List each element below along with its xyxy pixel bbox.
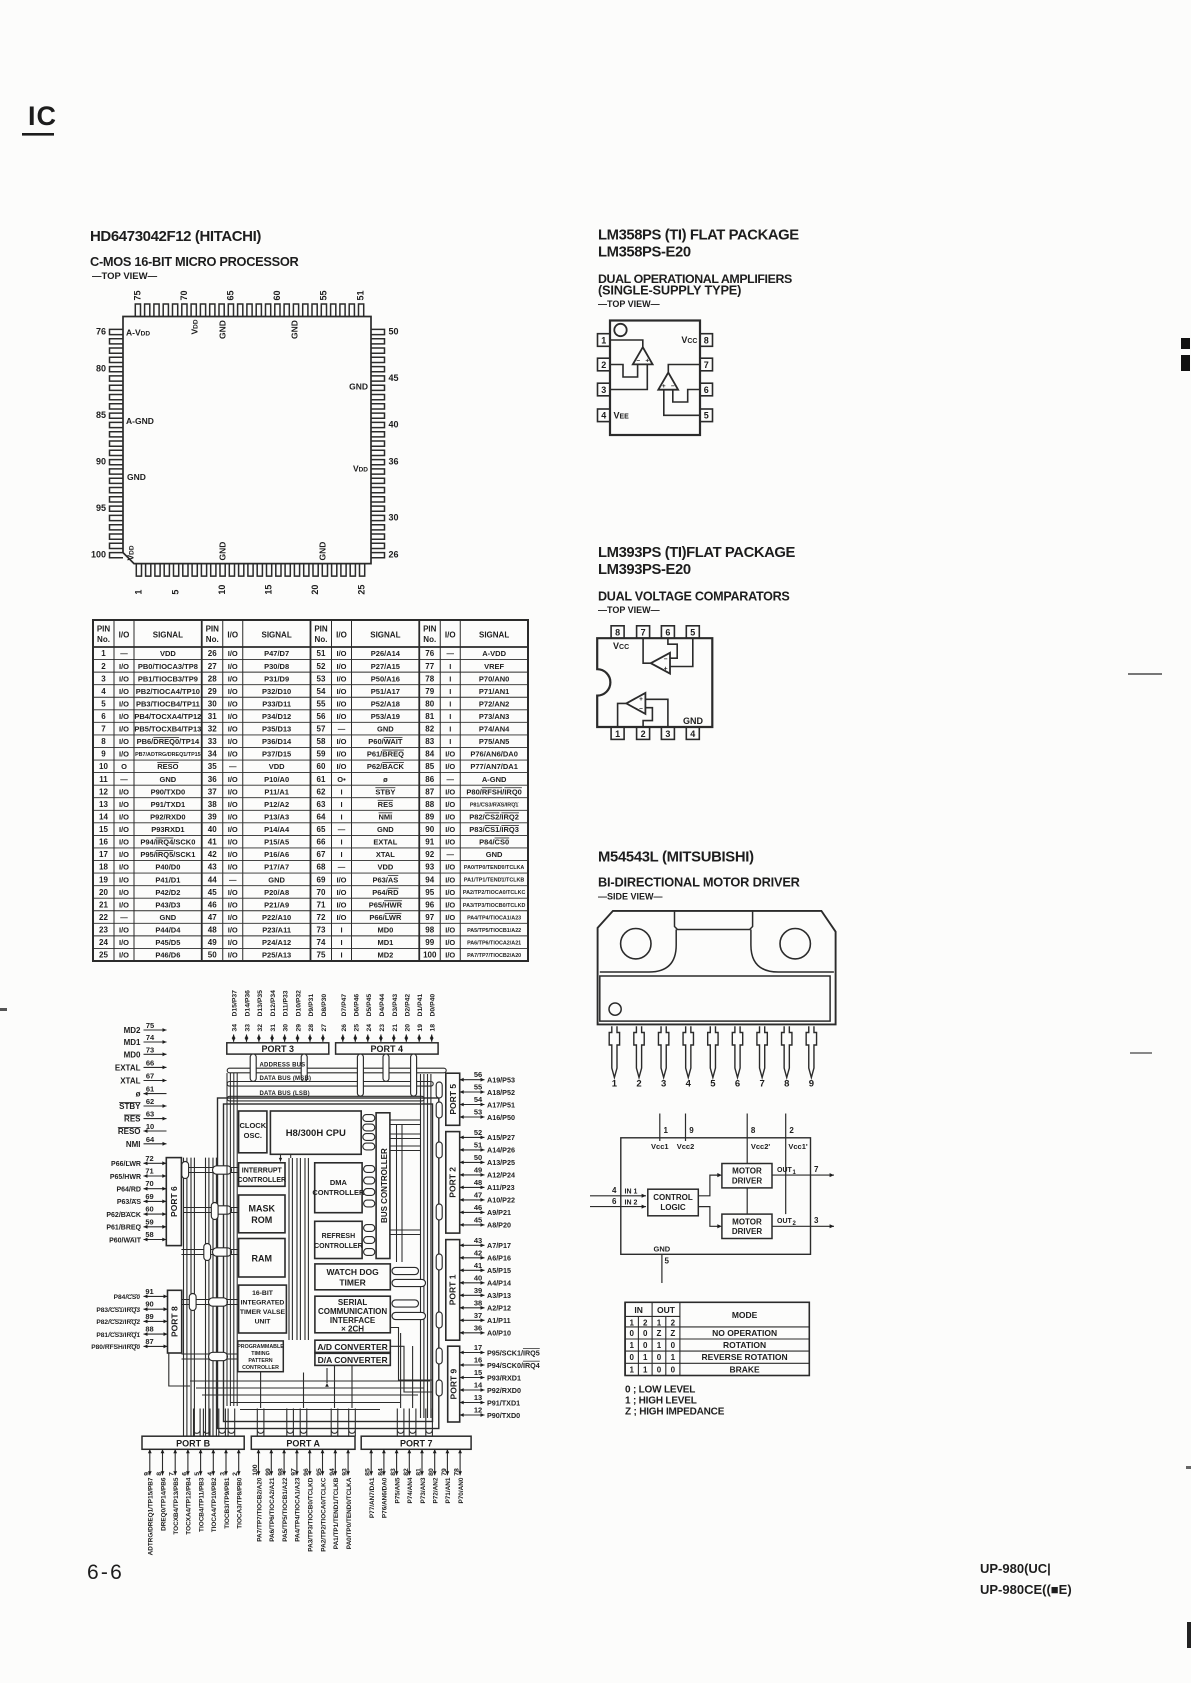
svg-text:A16/P50: A16/P50 [487, 1113, 515, 1122]
svg-text:I/O: I/O [119, 926, 129, 935]
svg-text:14: 14 [474, 1381, 483, 1390]
svg-text:43: 43 [208, 863, 217, 872]
svg-text:RESO: RESO [118, 1127, 141, 1136]
svg-text:VDD: VDD [377, 863, 393, 872]
svg-text:8: 8 [615, 628, 620, 638]
svg-text:96: 96 [425, 900, 434, 909]
svg-text:OUT: OUT [777, 1218, 793, 1225]
svg-text:0: 0 [657, 1365, 662, 1374]
svg-text:0: 0 [671, 1341, 676, 1350]
svg-text:5: 5 [171, 590, 181, 595]
svg-text:PA2/TP2/TIOCA0/TCLKC: PA2/TP2/TIOCA0/TCLKC [463, 890, 526, 896]
svg-text:18: 18 [430, 1024, 437, 1032]
svg-text:71: 71 [317, 900, 326, 909]
svg-text:6: 6 [735, 1079, 740, 1090]
svg-text:A3/P13: A3/P13 [487, 1291, 511, 1300]
svg-text:P82/CS2/IRQ2: P82/CS2/IRQ2 [96, 1319, 140, 1326]
svg-text:72: 72 [317, 913, 326, 922]
svg-text:I: I [449, 662, 451, 671]
svg-text:ø: ø [383, 775, 388, 784]
svg-text:42: 42 [474, 1248, 482, 1257]
svg-text:I: I [340, 800, 342, 809]
svg-text:TIMER VALSE: TIMER VALSE [240, 1309, 286, 1316]
svg-text:A1/P11: A1/P11 [487, 1316, 511, 1325]
svg-text:MD1: MD1 [124, 1038, 141, 1047]
svg-text:D2/P42: D2/P42 [404, 994, 411, 1017]
svg-text:21: 21 [392, 1024, 399, 1032]
svg-text:P36/D14: P36/D14 [262, 737, 292, 746]
svg-text:ADTRG/DREQ1/TP15/PB7: ADTRG/DREQ1/TP15/PB7 [148, 1477, 155, 1555]
wire U2A non-inverting input from pin3 [610, 364, 647, 389]
comparator U3A [651, 653, 670, 674]
block PORT 8 [168, 1290, 182, 1353]
svg-text:ø: ø [136, 1090, 141, 1099]
svg-text:7: 7 [814, 1165, 819, 1174]
svg-text:23: 23 [379, 1024, 386, 1032]
svg-text:Vcc2: Vcc2 [677, 1142, 695, 1151]
svg-text:I/O: I/O [228, 850, 238, 859]
svg-text:9: 9 [143, 1472, 150, 1476]
svg-text:3: 3 [665, 729, 670, 739]
svg-text:30: 30 [283, 1024, 290, 1032]
svg-text:74: 74 [317, 938, 326, 947]
svg-text:RES: RES [124, 1115, 141, 1124]
svg-text:58: 58 [145, 1230, 153, 1239]
PORT 9 external signals [460, 1352, 485, 1354]
svg-text:1: 1 [657, 1318, 662, 1327]
svg-text:27: 27 [321, 1024, 328, 1032]
svg-text:6-6: 6-6 [87, 1561, 124, 1584]
svg-text:88: 88 [145, 1325, 153, 1334]
svg-text:(SINGLE-SUPPLY TYPE): (SINGLE-SUPPLY TYPE) [598, 283, 741, 298]
svg-text:Vcc1: Vcc1 [651, 1142, 669, 1151]
svg-text:A-GND: A-GND [126, 416, 154, 426]
svg-text:3: 3 [814, 1216, 819, 1225]
svg-text:XTAL: XTAL [120, 1077, 140, 1086]
svg-text:A0/P10: A0/P10 [487, 1329, 511, 1338]
svg-text:P71/AN1: P71/AN1 [445, 1477, 452, 1503]
svg-text:27: 27 [208, 662, 217, 671]
svg-text:P70/AN0: P70/AN0 [458, 1477, 465, 1503]
op-amp U2B [658, 373, 678, 390]
svg-text:95: 95 [425, 888, 434, 897]
svg-text:70: 70 [145, 1179, 153, 1188]
svg-text:P84/CS0: P84/CS0 [479, 838, 509, 847]
svg-text:78: 78 [425, 674, 434, 683]
svg-text:VCC: VCC [681, 335, 697, 345]
svg-text:O•: O• [337, 775, 346, 784]
svg-text:I/O: I/O [119, 800, 129, 809]
svg-text:56: 56 [317, 712, 326, 721]
svg-text:P24/A12: P24/A12 [262, 938, 291, 947]
svg-text:I/O: I/O [119, 699, 129, 708]
svg-text:14: 14 [99, 812, 108, 821]
svg-text:80: 80 [425, 699, 434, 708]
svg-text:A15/P27: A15/P27 [487, 1133, 515, 1142]
U4 right wing inner outline [751, 930, 834, 973]
block DMA CONTROLLER [315, 1163, 362, 1213]
svg-text:90: 90 [145, 1300, 153, 1309]
svg-text:P77/AN7/DA1: P77/AN7/DA1 [470, 762, 518, 771]
PORT 7 external pins [370, 1449, 372, 1475]
svg-text:UP-980(UC|: UP-980(UC| [980, 1561, 1051, 1576]
svg-text:P80/RFSH/IRQ0: P80/RFSH/IRQ0 [466, 787, 521, 796]
svg-text:0: 0 [671, 1365, 676, 1374]
svg-text:8: 8 [704, 335, 709, 345]
svg-text:62: 62 [146, 1097, 154, 1106]
svg-text:39: 39 [208, 812, 217, 821]
svg-text:40: 40 [208, 825, 217, 834]
wire U3A output to pin7 [643, 638, 651, 663]
svg-text:A14/P26: A14/P26 [487, 1146, 515, 1155]
svg-text:37: 37 [474, 1311, 482, 1320]
svg-text:IN 2: IN 2 [625, 1199, 638, 1206]
svg-text:93: 93 [342, 1468, 349, 1476]
svg-text:I/O: I/O [119, 938, 129, 947]
svg-text:I/O: I/O [228, 913, 238, 922]
svg-text:6: 6 [704, 385, 709, 395]
svg-text:30: 30 [389, 512, 399, 522]
scan mark left edge [0, 1008, 7, 1011]
block INTERRUPT CONTROLLER [239, 1163, 285, 1187]
U4 mounting hole left [621, 929, 651, 959]
svg-text:5: 5 [665, 1257, 670, 1266]
svg-text:54: 54 [317, 687, 326, 696]
svg-text:GND: GND [377, 825, 394, 834]
svg-text:No.: No. [315, 635, 328, 644]
svg-text:41: 41 [474, 1261, 482, 1270]
svg-text:D8/P30: D8/P30 [321, 994, 328, 1017]
svg-text:0: 0 [657, 1353, 662, 1362]
svg-text:STBY: STBY [119, 1102, 141, 1111]
svg-text:P51/A17: P51/A17 [371, 687, 400, 696]
svg-text:TIOCA4/TP10/PB2: TIOCA4/TP10/PB2 [211, 1477, 218, 1532]
svg-text:97: 97 [290, 1468, 297, 1476]
svg-text:PORT 4: PORT 4 [371, 1044, 404, 1054]
svg-text:77: 77 [425, 662, 434, 671]
svg-text:I/O: I/O [336, 699, 346, 708]
svg-text:DRIVER: DRIVER [732, 1177, 762, 1186]
svg-text:D0/P40: D0/P40 [430, 994, 437, 1017]
svg-text:I: I [340, 938, 342, 947]
svg-text:8: 8 [101, 737, 106, 746]
svg-text:97: 97 [425, 913, 434, 922]
svg-text:MD2: MD2 [377, 951, 393, 960]
svg-text:28: 28 [208, 674, 217, 683]
svg-text:PB3/TIOCB4/TP11: PB3/TIOCB4/TP11 [136, 699, 200, 708]
svg-text:P64/RD: P64/RD [372, 888, 399, 897]
svg-text:—: — [229, 762, 237, 771]
U2 left pins 1-4 [598, 334, 611, 347]
svg-text:1: 1 [671, 1353, 676, 1362]
svg-text:P47/D7: P47/D7 [264, 649, 289, 658]
svg-text:45: 45 [389, 373, 399, 383]
wire lower horizontal runs [190, 1380, 430, 1382]
svg-text:+: + [639, 696, 643, 703]
U1 bottom pins 1..25 [136, 564, 141, 577]
U4 pins 1..9 [609, 1026, 619, 1077]
svg-text:LM393PS (TI)FLAT PACKAGE: LM393PS (TI)FLAT PACKAGE [598, 545, 796, 561]
svg-text:P30/D8: P30/D8 [264, 662, 289, 671]
svg-text:P72/AN2: P72/AN2 [479, 699, 509, 708]
svg-text:91: 91 [425, 838, 434, 847]
svg-text:P74/AN4: P74/AN4 [479, 725, 510, 734]
svg-text:51: 51 [356, 290, 366, 300]
svg-text:PB6/DREQ0/TP14: PB6/DREQ0/TP14 [137, 737, 200, 746]
svg-text:55: 55 [317, 699, 326, 708]
svg-text:−: − [671, 383, 675, 390]
svg-text:D14/P36: D14/P36 [245, 990, 252, 1017]
svg-text:98: 98 [425, 926, 434, 935]
block PORT 6 [166, 1158, 181, 1246]
wire trunk group left of chip [183, 1158, 185, 1437]
svg-text:88: 88 [425, 800, 434, 809]
svg-text:35: 35 [208, 762, 217, 771]
svg-text:PIN: PIN [314, 625, 328, 634]
svg-text:PA6/TP6/TIOCA2/A21: PA6/TP6/TIOCA2/A21 [269, 1477, 276, 1542]
svg-text:9: 9 [809, 1079, 814, 1090]
svg-text:I/O: I/O [119, 674, 129, 683]
svg-text:No.: No. [97, 635, 110, 644]
svg-text:P62/BACK: P62/BACK [106, 1212, 141, 1219]
U1 left pins 76..100 [110, 329, 124, 334]
svg-text:PA5/TP5/TIOCB1/A22: PA5/TP5/TIOCB1/A22 [467, 928, 521, 934]
svg-text:INTERRUPT: INTERRUPT [242, 1168, 283, 1175]
svg-text:40: 40 [474, 1273, 482, 1282]
svg-text:19: 19 [417, 1024, 424, 1032]
svg-text:I/O: I/O [119, 631, 130, 640]
block A/D CONVERTER [315, 1340, 390, 1352]
PORT B external pins [149, 1449, 151, 1475]
svg-text:52: 52 [474, 1128, 482, 1137]
wire taps DMA to bus controller [364, 1166, 375, 1173]
svg-text:10: 10 [99, 762, 108, 771]
svg-text:D6/P46: D6/P46 [353, 994, 360, 1017]
svg-text:PA4/TP4/TIOCA1/A23: PA4/TP4/TIOCA1/A23 [295, 1477, 302, 1542]
svg-text:P94/SCK0/IRQ4: P94/SCK0/IRQ4 [487, 1361, 540, 1370]
svg-text:I/O: I/O [336, 662, 346, 671]
wire bus controller to right trunks [390, 1145, 421, 1147]
svg-text:75: 75 [146, 1021, 154, 1030]
svg-text:TIMER: TIMER [339, 1277, 365, 1287]
svg-text:PA2/TP2/TIOCA0/TCLKC: PA2/TP2/TIOCA0/TCLKC [320, 1477, 327, 1551]
wire A/D D/A drop lines [390, 1346, 432, 1392]
svg-text:P84/CS0: P84/CS0 [114, 1294, 141, 1301]
svg-text:0: 0 [630, 1329, 635, 1338]
svg-text:34: 34 [208, 750, 217, 759]
block PORT 3 [227, 1043, 329, 1054]
svg-text:DREQ0/TP14/PB6: DREQ0/TP14/PB6 [160, 1477, 167, 1531]
comparator U3B [626, 693, 645, 714]
svg-text:P10/A0: P10/A0 [264, 775, 289, 784]
svg-text:89: 89 [425, 812, 434, 821]
svg-text:2: 2 [641, 729, 646, 739]
svg-text:GND: GND [683, 716, 704, 726]
svg-text:A11/P23: A11/P23 [487, 1183, 515, 1192]
svg-text:LM358PS-E20: LM358PS-E20 [598, 245, 691, 261]
block PORT 9 [448, 1346, 460, 1422]
svg-text:0: 0 [643, 1341, 648, 1350]
svg-text:5: 5 [690, 628, 695, 638]
svg-text:MD2: MD2 [124, 1026, 141, 1035]
svg-text:A17/P51: A17/P51 [487, 1100, 515, 1109]
IC U2 LM358PS package body [610, 321, 700, 436]
svg-text:VDD: VDD [190, 319, 200, 334]
block H8/300H CPU [270, 1111, 361, 1154]
svg-text:—: — [338, 825, 346, 834]
svg-text:31: 31 [270, 1024, 277, 1032]
wire Vcc1p pin2 [785, 1114, 787, 1215]
svg-text:SIGNAL: SIGNAL [370, 631, 400, 640]
svg-text:D1/P41: D1/P41 [417, 994, 424, 1017]
svg-text:PA6/TP6/TIOCA2/A21: PA6/TP6/TIOCA2/A21 [467, 940, 521, 946]
svg-text:No.: No. [206, 635, 219, 644]
svg-text:1: 1 [612, 1079, 618, 1090]
svg-text:13: 13 [474, 1393, 482, 1402]
svg-text:87: 87 [145, 1337, 153, 1346]
wire control to driver1 [698, 1175, 719, 1196]
chip outline inner [224, 1104, 433, 1422]
svg-text:16: 16 [99, 838, 108, 847]
svg-text:P61/BREQ: P61/BREQ [367, 750, 404, 759]
svg-text:2: 2 [789, 1126, 794, 1135]
svg-text:PIN: PIN [97, 625, 111, 634]
svg-text:—: — [338, 863, 346, 872]
svg-text:IC: IC [28, 101, 57, 131]
svg-text:5: 5 [710, 1079, 716, 1090]
svg-text:I/O: I/O [445, 951, 455, 960]
svg-text:XTAL: XTAL [376, 850, 395, 859]
svg-text:P26/A14: P26/A14 [371, 649, 401, 658]
svg-text:—: — [447, 775, 455, 784]
svg-text:P25/A13: P25/A13 [262, 951, 291, 960]
svg-text:I/O: I/O [228, 775, 238, 784]
svg-text:H8/300H CPU: H8/300H CPU [286, 1128, 346, 1139]
svg-text:P71/AN1: P71/AN1 [479, 687, 509, 696]
svg-text:P81/CS3/IRQ1: P81/CS3/IRQ1 [96, 1332, 140, 1339]
svg-text:72: 72 [145, 1154, 153, 1163]
svg-text:ADDRESS BUS: ADDRESS BUS [260, 1063, 306, 1069]
svg-text:I/O: I/O [336, 649, 346, 658]
svg-text:100: 100 [252, 1464, 259, 1476]
svg-text:89: 89 [145, 1312, 153, 1321]
svg-text:A12/P24: A12/P24 [487, 1171, 515, 1180]
svg-text:I/O: I/O [336, 631, 347, 640]
svg-text:82: 82 [403, 1468, 410, 1476]
svg-text:30: 30 [208, 699, 217, 708]
svg-text:4: 4 [207, 1472, 214, 1476]
svg-text:0 ; LOW LEVEL: 0 ; LOW LEVEL [625, 1385, 695, 1396]
svg-text:78: 78 [454, 1468, 461, 1476]
svg-text:IN 1: IN 1 [625, 1189, 638, 1196]
wire bottom connector loops to ports [194, 1409, 201, 1434]
svg-text:MODE: MODE [732, 1310, 758, 1320]
wire BC to PORT2 area extras [390, 1133, 421, 1135]
svg-text:TIMING: TIMING [251, 1351, 270, 1357]
svg-text:Vcc2': Vcc2' [751, 1142, 771, 1151]
svg-text:RAM: RAM [252, 1254, 273, 1264]
svg-text:P75/AN5: P75/AN5 [394, 1477, 401, 1503]
svg-text:I/O: I/O [119, 825, 129, 834]
svg-text:ROTATION: ROTATION [723, 1340, 766, 1350]
svg-text:P91/TXD1: P91/TXD1 [151, 800, 186, 809]
svg-text:PORT 8: PORT 8 [170, 1306, 180, 1337]
U4 mounting hole right [780, 929, 810, 959]
wire U3B inverting input from pin2 [643, 708, 652, 727]
svg-text:1: 1 [643, 1353, 648, 1362]
svg-text:25: 25 [99, 951, 108, 960]
svg-text:I/O: I/O [445, 750, 455, 759]
IC U3 LM393PS package body [597, 638, 712, 727]
svg-text:I/O: I/O [228, 674, 238, 683]
svg-text:PA1/TP1/TEND1/TCLKB: PA1/TP1/TEND1/TCLKB [464, 878, 525, 884]
svg-text:80: 80 [428, 1468, 435, 1476]
svg-text:I/O: I/O [228, 863, 238, 872]
svg-text:OSC.: OSC. [244, 1131, 262, 1140]
svg-text:1: 1 [664, 1126, 669, 1135]
block BUS CONTROLLER [376, 1113, 390, 1259]
svg-text:TIOCA3/TP8/PB0: TIOCA3/TP8/PB0 [237, 1477, 244, 1529]
svg-text:I/O: I/O [336, 687, 346, 696]
svg-text:71: 71 [145, 1167, 153, 1176]
wire vertical drops to bottom stubs [260, 1372, 262, 1408]
svg-text:29: 29 [208, 687, 217, 696]
svg-text:84: 84 [377, 1468, 384, 1476]
svg-text:VDD: VDD [269, 762, 285, 771]
svg-text:CONTROLLER: CONTROLLER [312, 1188, 365, 1197]
svg-text:7: 7 [169, 1472, 176, 1476]
svg-text:PB4/TOCXA4/TP12: PB4/TOCXA4/TP12 [134, 712, 201, 721]
svg-text:I: I [449, 737, 451, 746]
U2 right pins 8-5 [700, 334, 713, 347]
svg-text:—: — [447, 649, 455, 658]
svg-text:—TOP VIEW—: —TOP VIEW— [598, 299, 660, 309]
svg-text:MOTOR: MOTOR [732, 1217, 762, 1226]
svg-text:I/O: I/O [119, 662, 129, 671]
svg-text:16-BIT: 16-BIT [252, 1290, 274, 1297]
wire control to driver2 [698, 1207, 719, 1227]
svg-text:EXTAL: EXTAL [115, 1063, 141, 1072]
svg-text:P35/D13: P35/D13 [262, 725, 291, 734]
svg-text:5: 5 [704, 411, 709, 421]
svg-text:50: 50 [389, 326, 399, 336]
svg-text:I/O: I/O [228, 737, 238, 746]
svg-text:85: 85 [365, 1468, 372, 1476]
svg-text:P62/BACK: P62/BACK [367, 762, 405, 771]
svg-text:IN: IN [634, 1305, 643, 1315]
svg-text:I/O: I/O [228, 938, 238, 947]
op-amp U2A [633, 347, 653, 364]
svg-text:A18/P52: A18/P52 [487, 1088, 515, 1097]
svg-text:26: 26 [208, 649, 217, 658]
scan mark right edge top [1181, 338, 1190, 349]
svg-text:16: 16 [474, 1356, 482, 1365]
svg-text:I/O: I/O [119, 900, 129, 909]
svg-text:82: 82 [425, 725, 434, 734]
U4 mode truth table [625, 1302, 809, 1375]
svg-text:+: + [662, 383, 666, 390]
svg-text:81: 81 [416, 1468, 423, 1476]
svg-text:P66/LWR: P66/LWR [369, 913, 402, 922]
svg-text:4: 4 [101, 687, 106, 696]
svg-text:P40/D0: P40/D0 [155, 863, 180, 872]
svg-text:GND: GND [349, 382, 368, 392]
svg-text:93: 93 [425, 863, 434, 872]
svg-text:LM393PS-E20: LM393PS-E20 [598, 562, 691, 578]
svg-text:I/O: I/O [445, 863, 455, 872]
svg-text:9: 9 [689, 1126, 694, 1135]
wire Vcc2p pin8 to motor driver 1 [746, 1114, 748, 1164]
